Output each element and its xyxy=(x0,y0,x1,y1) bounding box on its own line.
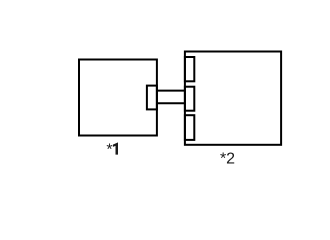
connector cavity 3 on *2 xyxy=(185,115,194,140)
svg-text:*: * xyxy=(106,142,112,159)
component *2 box xyxy=(185,52,281,145)
component *1 box xyxy=(79,60,157,136)
wire bar top line xyxy=(157,90,185,92)
wire bar bottom line xyxy=(157,102,185,104)
connector tab on *1 xyxy=(147,86,157,110)
label *1 digit 1 xyxy=(113,142,118,154)
connector cavity 2 on *2 xyxy=(185,87,194,111)
connector cavity 1 on *2 xyxy=(185,57,194,81)
svg-text:*2: *2 xyxy=(220,151,235,168)
